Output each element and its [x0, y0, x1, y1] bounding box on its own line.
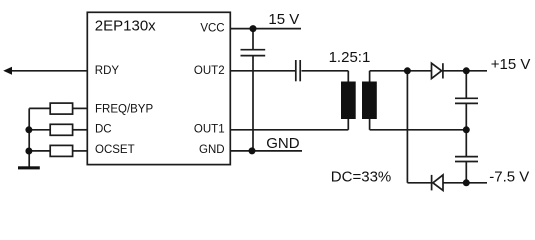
svg-text:DC=33%: DC=33% — [331, 168, 391, 185]
svg-text:+15 V: +15 V — [491, 56, 531, 73]
svg-text:RDY: RDY — [95, 65, 120, 77]
svg-text:2EP130x: 2EP130x — [95, 18, 156, 35]
svg-text:FREQ/BYP: FREQ/BYP — [95, 103, 153, 115]
svg-text:15 V: 15 V — [268, 11, 299, 28]
svg-text:VCC: VCC — [200, 23, 224, 35]
svg-text:GND: GND — [266, 135, 300, 152]
svg-text:OCSET: OCSET — [95, 144, 135, 156]
svg-text:OUT1: OUT1 — [194, 123, 225, 135]
svg-text:DC: DC — [95, 123, 112, 135]
svg-text:OUT2: OUT2 — [194, 65, 225, 77]
svg-text:1.25:1: 1.25:1 — [329, 49, 371, 66]
svg-text:-7.5 V: -7.5 V — [489, 168, 529, 185]
svg-text:GND: GND — [199, 144, 225, 156]
